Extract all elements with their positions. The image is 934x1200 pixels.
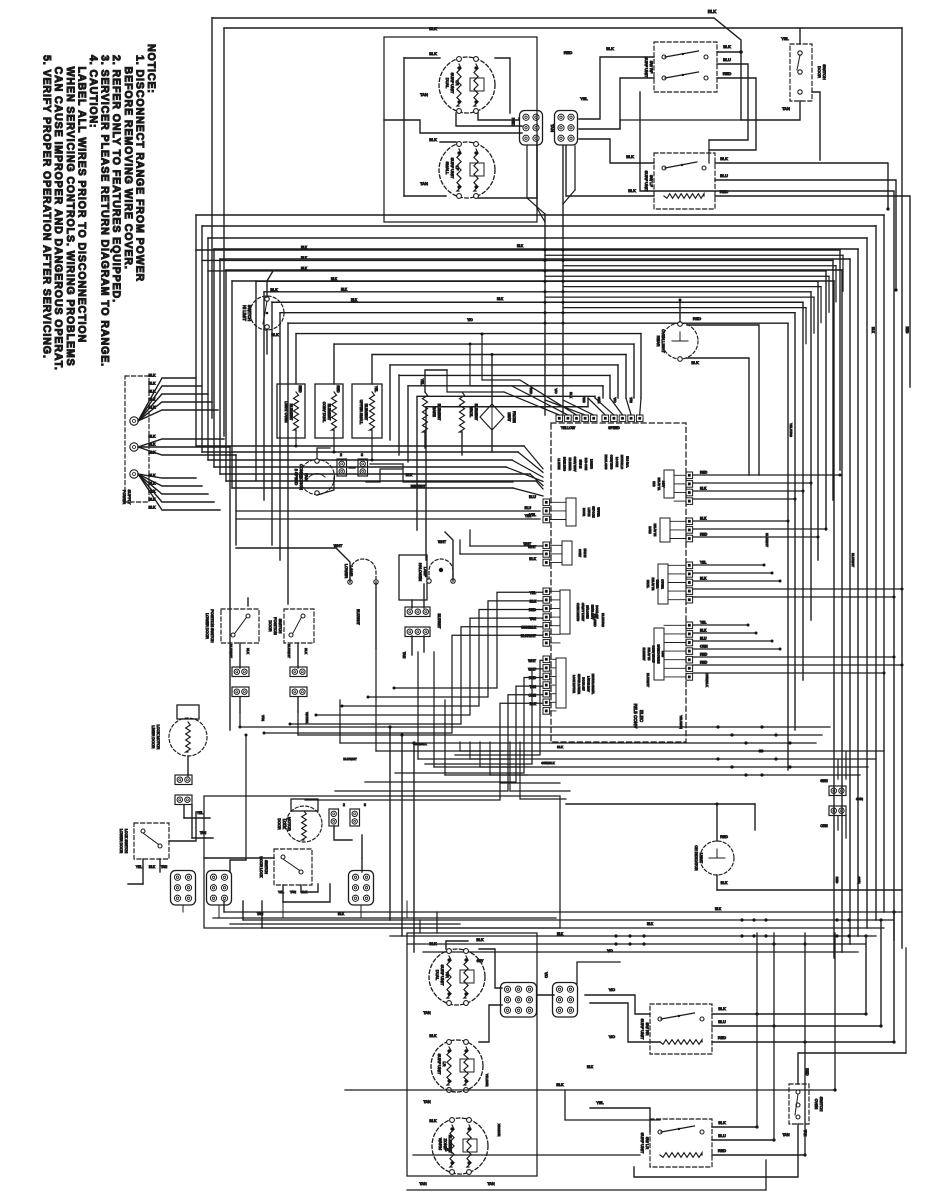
- wires lower dps: [239, 643, 241, 668]
- svg-text:WHT: WHT: [528, 659, 536, 663]
- svg-text:RED: RED: [835, 877, 839, 884]
- wire fan feeders from elements: [447, 370, 504, 392]
- svg-text:BLU: BLU: [723, 57, 731, 62]
- svg-text:YEL: YEL: [596, 1101, 603, 1105]
- svg-text:LR: LR: [455, 81, 460, 86]
- svg-text:BLU: BLU: [700, 637, 707, 641]
- lock switch connector B: [207, 871, 232, 906]
- connector J1 2x3: [520, 111, 543, 146]
- bottom connector 3x3: [501, 983, 537, 1018]
- svg-text:BLU: BLU: [529, 495, 536, 499]
- svg-text:RELAY K2: RELAY K2: [651, 578, 655, 591]
- svg-text:SPEED: SPEED: [608, 426, 620, 430]
- svg-text:SURF UNIT: SURF UNIT: [450, 73, 455, 94]
- wire drop x408: [407, 386, 409, 462]
- lower lamp: [350, 559, 376, 581]
- svg-text:CONV DUAL: CONV DUAL: [322, 402, 326, 422]
- wire bus row 4: [264, 291, 811, 293]
- svg-text:BLK: BLK: [149, 406, 157, 410]
- upper small element: [352, 384, 382, 438]
- relay RR output wires: [712, 1013, 866, 1015]
- svg-text:YEL: YEL: [700, 561, 707, 565]
- wires fan: [317, 448, 330, 459]
- power vertical drops: [235, 455, 237, 545]
- svg-text:SURF UNIT: SURF UNIT: [437, 1054, 442, 1075]
- svg-text:RED: RED: [529, 388, 533, 395]
- svg-text:RED: RED: [700, 533, 708, 537]
- svg-text:ELEMENT: ELEMENT: [437, 404, 441, 421]
- svg-text:BLK: BLK: [569, 392, 573, 398]
- svg-text:BLK: BLK: [331, 277, 338, 281]
- svg-text:2 SPEED: 2 SPEED: [294, 469, 299, 486]
- svg-text:BLK: BLK: [429, 1034, 437, 1038]
- rear oven light: [662, 323, 698, 359]
- wires box bottom rails: [213, 917, 556, 919]
- fan connector 3: [358, 459, 368, 476]
- nested bus rectangles: [196, 214, 884, 216]
- svg-text:CONVECTION: CONVECTION: [299, 464, 304, 490]
- wire left vertical A: [211, 18, 213, 418]
- convection fan motor: [300, 460, 335, 495]
- svg-text:SURF UNIT: SURF UNIT: [440, 965, 445, 986]
- wire top bus B: [224, 27, 902, 29]
- svg-text:TAN: TAN: [782, 106, 790, 111]
- svg-text:VIO: VIO: [609, 988, 615, 992]
- wire drop x334: [333, 344, 335, 384]
- wire drop x264: [263, 292, 265, 500]
- wire mid vertical x563: [562, 146, 564, 415]
- svg-text:GRN/BLK: GRN/BLK: [413, 742, 426, 746]
- svg-text:LOCK SWITCH: LOCK SWITCH: [124, 829, 128, 854]
- svg-text:SURF UNIT: SURF UNIT: [644, 171, 649, 192]
- svg-text:OVEN: OVEN: [814, 1099, 818, 1110]
- svg-text:BLK: BLK: [304, 648, 308, 655]
- halogen lamp: [399, 555, 427, 600]
- wire bus row 11: [390, 364, 618, 366]
- svg-text:WHT/BL: WHT/BL: [305, 712, 309, 724]
- wire bus row 1: [202, 259, 833, 261]
- bake element: [423, 392, 428, 432]
- svg-text:BLK: BLK: [149, 374, 157, 378]
- svg-text:RED: RED: [298, 386, 302, 394]
- wire drop x372: [371, 355, 373, 384]
- svg-text:RR: RR: [445, 972, 450, 978]
- svg-text:BAKE: BAKE: [648, 526, 652, 533]
- svg-text:MOTOR LO: MOTOR LO: [620, 455, 624, 469]
- svg-text:3. SERVICER PLEASE RETURN DIAG: 3. SERVICER PLEASE RETURN DIAGRAM TO RAN…: [99, 55, 111, 367]
- svg-text:BLK: BLK: [700, 629, 707, 633]
- svg-text:RED: RED: [529, 676, 537, 680]
- svg-text:DLB: DLB: [652, 481, 656, 486]
- svg-text:RELAY K4: RELAY K4: [653, 524, 657, 537]
- svg-text:LR: LR: [442, 1062, 447, 1067]
- wire bus row 10: [372, 354, 626, 356]
- wire y120 horizontal: [620, 119, 741, 121]
- bottom-left wire stubs: [419, 920, 421, 933]
- wires board pins C elbows: [394, 592, 543, 688]
- svg-text:BLK: BLK: [530, 702, 537, 706]
- light oven element: [277, 384, 305, 438]
- bottom right verticals: [756, 933, 758, 1127]
- svg-text:CAN CAUSE IMPROPER AND DANGERO: CAN CAUSE IMPROPER AND DANGEROUS OPERAT.: [52, 55, 64, 371]
- svg-text:RED: RED: [693, 316, 701, 321]
- wires OH light: [716, 804, 718, 841]
- svg-text:UPPER: UPPER: [596, 507, 600, 516]
- svg-text:BLK: BLK: [497, 297, 504, 301]
- wires door switch: [799, 28, 801, 44]
- wire bus row 7: [288, 322, 788, 324]
- svg-text:BLK: BLK: [301, 246, 308, 250]
- mid band horizontals: [240, 726, 830, 728]
- svg-text:BLK/WHT: BLK/WHT: [287, 644, 291, 658]
- wires bottom connectors: [479, 949, 502, 988]
- svg-text:RELAY K1: RELAY K1: [657, 478, 661, 491]
- svg-text:BROIL: BROIL: [646, 580, 650, 589]
- svg-text:BLK/WHT: BLK/WHT: [521, 634, 536, 638]
- oven door switch top-right: [790, 44, 812, 101]
- OH indicator light: [700, 841, 734, 875]
- svg-text:TAN: TAN: [629, 397, 633, 403]
- wire top bus A: [212, 18, 741, 52]
- svg-text:SW LR: SW LR: [645, 1137, 650, 1150]
- svg-text:BLK: BLK: [301, 266, 308, 270]
- svg-text:TAN: TAN: [487, 1182, 495, 1186]
- svg-text:SURF UNIT: SURF UNIT: [644, 57, 649, 78]
- svg-text:YEL/GRN: YEL/GRN: [679, 715, 683, 729]
- svg-text:RED: RED: [700, 661, 708, 665]
- svg-text:BLK: BLK: [429, 942, 437, 946]
- svg-text:X10/BRN: X10/BRN: [497, 1124, 501, 1137]
- board left pins A: [543, 499, 550, 506]
- svg-text:BROIL: BROIL: [469, 407, 473, 418]
- svg-text:YEL: YEL: [197, 811, 203, 815]
- svg-text:SWITCH: SWITCH: [264, 860, 268, 874]
- door lock assembly box: [204, 796, 560, 928]
- board relay lights: [560, 590, 570, 634]
- svg-text:RELAY K5: RELAY K5: [647, 648, 651, 661]
- svg-text:TAN: TAN: [420, 92, 428, 97]
- svg-text:BLK: BLK: [700, 487, 707, 491]
- svg-text:SW RR: SW RR: [645, 1023, 650, 1036]
- board top pin fan: [504, 392, 559, 415]
- svg-text:ELEMENT: ELEMENT: [364, 404, 368, 421]
- svg-text:CONV: CONV: [578, 549, 582, 557]
- svg-text:BLK: BLK: [149, 482, 157, 486]
- svg-text:GRN/BLK: GRN/BLK: [541, 761, 554, 765]
- svg-text:LOWER DOOR: LOWER DOOR: [119, 829, 123, 854]
- svg-text:RED: RED: [718, 1035, 726, 1040]
- bottom oven switch: [789, 1084, 809, 1124]
- svg-text:GRN/BLK: GRN/BLK: [521, 625, 537, 629]
- wire J1 bottom stubs: [526, 146, 528, 198]
- svg-text:BLK: BLK: [871, 327, 875, 334]
- wire drop x256: [255, 281, 257, 480]
- wires board pins D elbows: [455, 660, 543, 755]
- svg-text:ELEMENT: ELEMENT: [642, 648, 646, 661]
- wire bus row 8: [296, 333, 641, 335]
- relay RF output wires: [717, 51, 741, 53]
- svg-text:BLK: BLK: [341, 287, 348, 291]
- svg-text:LINE: LINE: [661, 651, 665, 657]
- wire bus row 12: [399, 374, 610, 376]
- svg-text:INNER: INNER: [656, 580, 660, 588]
- svg-text:BLK/WHT: BLK/WHT: [851, 553, 855, 567]
- svg-text:BLK: BLK: [723, 44, 731, 49]
- burner element left-front: [439, 142, 495, 198]
- svg-text:RED: RED: [720, 835, 728, 839]
- wires board right: [693, 474, 840, 476]
- svg-text:RED: RED: [905, 327, 909, 334]
- svg-text:LABEL ALL WIRES PRIOR TO DISCO: LABEL ALL WIRES PRIOR TO DISCONNECTION: [75, 55, 87, 343]
- svg-text:TAN: TAN: [161, 865, 168, 869]
- bottom edge wires: [407, 1189, 766, 1191]
- svg-text:BLK: BLK: [429, 26, 437, 31]
- svg-text:SURF UNIT: SURF UNIT: [640, 1133, 645, 1154]
- svg-text:LOWER: LOWER: [344, 564, 349, 578]
- lower oven box: [407, 933, 537, 1176]
- svg-text:DOOR: DOOR: [817, 66, 822, 78]
- wires bottom switch: [798, 1053, 906, 1084]
- svg-text:TAN: TAN: [423, 1011, 431, 1015]
- door lock motor connectors: [329, 809, 339, 826]
- svg-text:BLU: BLU: [718, 1133, 726, 1138]
- svg-text:BLK: BLK: [149, 451, 157, 455]
- warm zone element: [432, 1118, 488, 1174]
- svg-text:BLU: BLU: [720, 173, 728, 178]
- svg-text:TAN: TAN: [261, 715, 265, 721]
- svg-text:Y/O: Y/O: [467, 318, 473, 322]
- svg-text:OVEN LIGHTS: OVEN LIGHTS: [576, 603, 580, 621]
- svg-text:BLK: BLK: [715, 907, 722, 911]
- svg-text:BLK/WHT: BLK/WHT: [646, 673, 650, 687]
- wires halogen: [411, 600, 413, 608]
- bottom relay box RR: [650, 1004, 712, 1054]
- board right pins E: [686, 472, 693, 479]
- svg-text:MOTOR: MOTOR: [287, 817, 291, 831]
- wire drop x426: [425, 407, 427, 560]
- svg-text:BAKE: BAKE: [432, 407, 436, 417]
- svg-text:SURF UNIT: SURF UNIT: [450, 158, 455, 179]
- svg-text:HALOGEN: HALOGEN: [418, 563, 422, 581]
- lower burner LR: [431, 1040, 483, 1092]
- lock switch connector A: [171, 871, 196, 906]
- wire bus row 14: [417, 395, 595, 397]
- svg-text:YEL/ORG: YEL/ORG: [789, 423, 793, 437]
- notice text block: [41, 44, 157, 371]
- svg-text:SWITCH: SWITCH: [247, 305, 252, 321]
- svg-text:DOOR SW: DOOR SW: [582, 677, 586, 691]
- wire bus row 5: [272, 301, 803, 303]
- svg-text:REAR: REAR: [656, 336, 661, 347]
- svg-text:BLK: BLK: [557, 745, 564, 749]
- svg-text:BLK: BLK: [718, 1006, 726, 1011]
- svg-text:LAMP: LAMP: [423, 567, 427, 578]
- wire bus row 3: [256, 280, 818, 282]
- svg-text:TAN: TAN: [550, 124, 555, 132]
- svg-text:BLK: BLK: [691, 360, 699, 365]
- svg-text:WHT: WHT: [438, 540, 447, 544]
- door lock connector C: [349, 871, 374, 906]
- svg-text:YEL: YEL: [420, 379, 424, 386]
- svg-text:CONV 2500: CONV 2500: [609, 455, 613, 470]
- board right pins F: [686, 518, 693, 525]
- svg-text:BR INNER: BR INNER: [568, 458, 572, 471]
- svg-text:RED: RED: [511, 118, 516, 127]
- wire drop x417: [416, 397, 418, 530]
- wire bus row 13: [408, 385, 603, 387]
- svg-text:POSITION SWITCH: POSITION SWITCH: [210, 609, 214, 643]
- svg-text:BLK: BLK: [720, 156, 728, 161]
- svg-text:BLU: BLU: [525, 506, 532, 510]
- svg-text:DUAL: DUAL: [435, 970, 440, 981]
- svg-text:RED: RED: [700, 471, 708, 475]
- svg-text:CONV 2500W: CONV 2500W: [652, 645, 656, 662]
- svg-text:BLK: BLK: [149, 382, 157, 386]
- svg-text:RED: RED: [700, 653, 708, 657]
- relay LR output wires: [712, 1126, 757, 1128]
- power fan wires: [138, 378, 196, 421]
- svg-text:BLK: BLK: [429, 137, 437, 142]
- wire bus row 9: [334, 343, 634, 345]
- connector J2 2x3: [555, 111, 578, 146]
- board right pins G: [686, 562, 693, 569]
- svg-text:LIGHT: LIGHT: [699, 853, 703, 864]
- svg-text:LIGHTS: LIGHTS: [589, 459, 593, 469]
- svg-text:BLK: BLK: [628, 188, 636, 193]
- wires door lock box: [282, 885, 284, 902]
- svg-text:FAN HI: FAN HI: [583, 549, 587, 558]
- svg-text:3: 3: [361, 453, 363, 457]
- svg-text:FAN: FAN: [304, 473, 309, 481]
- wire drain x240 to band: [239, 726, 242, 729]
- mid band left feed verticals: [239, 712, 241, 727]
- svg-text:SMALL: SMALL: [445, 162, 450, 176]
- liner motor connectors: [175, 775, 192, 785]
- board left pins C: [543, 588, 550, 595]
- svg-text:BLK: BLK: [149, 506, 157, 510]
- board relay lock: [556, 658, 566, 708]
- svg-text:LIGHT OVEN: LIGHT OVEN: [284, 401, 288, 423]
- svg-text:3: 3: [364, 803, 366, 807]
- wires right connectors: [837, 760, 839, 779]
- board internal stubs right: [674, 474, 686, 476]
- door lock motor: [291, 799, 318, 811]
- broil element: [460, 392, 465, 432]
- svg-text:DOOR: DOOR: [268, 620, 272, 631]
- svg-text:BLK: BLK: [149, 435, 157, 439]
- svg-text:OH INDICATOR: OH INDICATOR: [694, 845, 698, 871]
- wires rear oven light: [679, 300, 681, 322]
- svg-text:OVEN LIGHT: OVEN LIGHT: [661, 329, 666, 353]
- svg-text:WARM: WARM: [438, 1138, 443, 1150]
- svg-text:LOWER DOOR: LOWER DOOR: [205, 613, 209, 639]
- board left pins D: [543, 656, 550, 663]
- svg-text:YEL: YEL: [530, 591, 537, 595]
- bottom connector 2x3: [553, 983, 578, 1018]
- wire board feed YEL: [236, 518, 540, 520]
- mid band lower verticals: [389, 727, 391, 920]
- svg-text:TAN: TAN: [444, 1148, 452, 1152]
- svg-text:BLK: BLK: [149, 398, 157, 402]
- wires dps: [297, 643, 299, 668]
- lower burner RR: [429, 949, 485, 1005]
- svg-text:SUPPLY: SUPPLY: [127, 490, 131, 505]
- svg-text:LINER DOOR: LINER DOOR: [151, 726, 155, 749]
- svg-text:RED: RED: [336, 386, 340, 394]
- wire bus row 0: [196, 249, 840, 251]
- board top pins group2: [602, 415, 609, 422]
- svg-text:L2 COM: L2 COM: [615, 457, 619, 468]
- door lock switch: [274, 849, 312, 885]
- svg-text:ELEC: ELEC: [639, 710, 644, 723]
- svg-text:BLK: BLK: [626, 154, 634, 159]
- svg-text:RE.5 CONV: RE.5 CONV: [633, 704, 638, 730]
- mid band junction dots: [716, 725, 719, 728]
- svg-text:POSITION: POSITION: [273, 617, 277, 635]
- svg-text:BLK: BLK: [718, 1120, 726, 1125]
- svg-text:LOCK: LOCK: [282, 819, 286, 830]
- svg-text:TAN: TAN: [423, 1100, 431, 1104]
- board right pins H: [686, 622, 693, 629]
- wires below board horizontals: [500, 782, 560, 784]
- svg-text:BLK: BLK: [149, 390, 157, 394]
- svg-text:4. CAUTION:: 4. CAUTION:: [87, 55, 99, 128]
- svg-text:RED: RED: [529, 608, 537, 612]
- svg-text:SW COM: SW COM: [592, 506, 596, 518]
- svg-text:TAN: TAN: [419, 1182, 427, 1186]
- svg-text:LF: LF: [455, 166, 460, 171]
- svg-text:GRN: GRN: [857, 877, 861, 884]
- svg-text:YEL: YEL: [374, 386, 378, 392]
- svg-text:1. DISCONNECT RANGE FROM POWER: 1. DISCONNECT RANGE FROM POWER: [133, 55, 145, 282]
- svg-text:DUAL: DUAL: [445, 78, 450, 89]
- door position switch: [284, 609, 314, 643]
- svg-text:ORN/BLK: ORN/BLK: [705, 673, 709, 688]
- svg-text:RED: RED: [723, 71, 732, 76]
- wires J2 to relays: [579, 57, 654, 119]
- svg-text:BLK: BLK: [149, 865, 156, 869]
- svg-text:BLK: BLK: [301, 256, 308, 260]
- wire bus row 6: [280, 312, 795, 314]
- svg-text:BLK: BLK: [149, 474, 157, 478]
- svg-text:YELLOW: YELLOW: [561, 426, 576, 430]
- svg-text:BLK/WHT: BLK/WHT: [437, 614, 441, 629]
- halogen connectors: [405, 607, 430, 617]
- svg-text:BLK: BLK: [721, 881, 728, 885]
- svg-text:YEL: YEL: [136, 865, 142, 869]
- svg-text:SWITCH: SWITCH: [278, 619, 282, 634]
- svg-text:2: 2: [340, 453, 342, 457]
- svg-text:BLK: BLK: [530, 600, 537, 604]
- svg-text:YEL: YEL: [580, 96, 588, 101]
- svg-text:ELEMENT: ELEMENT: [474, 404, 478, 421]
- wire drop x288: [287, 323, 289, 604]
- svg-text:ELEMENT: ELEMENT: [327, 404, 331, 421]
- svg-text:TAN: TAN: [402, 652, 406, 659]
- svg-text:MEAT: MEAT: [507, 413, 511, 422]
- control board outline: [551, 423, 686, 742]
- svg-text:5. VERIFY PROPER OPERATION AFT: 5. VERIFY PROPER OPERATION AFTER SERVICI…: [41, 55, 53, 359]
- svg-text:BLK: BLK: [606, 46, 614, 51]
- wires board bottom: [459, 742, 461, 751]
- svg-text:LOCK MOTOR: LOCK MOTOR: [572, 675, 576, 693]
- svg-text:BAKE DOUBLE: BAKE DOUBLE: [656, 645, 660, 664]
- right small connector O: [829, 806, 846, 816]
- wire bus row 15: [426, 406, 588, 408]
- wires liner motor: [187, 756, 189, 776]
- wires element bottoms: [295, 430, 297, 446]
- svg-text:SWITCH: SWITCH: [819, 1097, 823, 1112]
